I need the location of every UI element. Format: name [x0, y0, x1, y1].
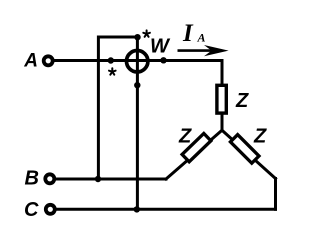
wire branch A down to load — [221, 61, 224, 86]
node junction on line B — [95, 176, 101, 182]
polarity asterisk on line A — [109, 68, 116, 74]
svg-text:W: W — [150, 36, 171, 58]
wire wye left diagonal — [166, 130, 222, 179]
svg-text:I: I — [182, 20, 194, 47]
node voltage-coil lower terminal — [134, 82, 140, 88]
svg-text:Z: Z — [253, 126, 267, 148]
impedance Z right box — [230, 135, 259, 164]
svg-text:C: C — [24, 199, 39, 221]
node voltage-coil * terminal top — [134, 34, 140, 40]
wire from Z box to wye center — [221, 114, 224, 130]
svg-text:Z: Z — [178, 126, 192, 148]
wattmeter W1 circle — [127, 51, 148, 72]
svg-text:A: A — [23, 51, 38, 72]
node current-coil terminal right of W — [160, 57, 166, 63]
wire phase A horizontal — [55, 59, 223, 62]
impedance Z top box — [217, 85, 226, 113]
polarity asterisk top — [143, 30, 150, 36]
wire phase B horizontal — [56, 178, 166, 181]
svg-text:A: A — [197, 31, 206, 45]
node current-coil * terminal on line A — [108, 57, 114, 63]
wire wye right diagonal — [222, 130, 276, 178]
svg-text:B: B — [25, 168, 39, 190]
wire phase C horizontal — [56, 208, 275, 211]
node junction on line C — [134, 206, 140, 212]
wire wattmeter vertical — [136, 37, 139, 209]
svg-text:Z: Z — [235, 90, 249, 112]
wire right side down — [274, 179, 277, 210]
terminal C — [46, 205, 55, 214]
wire voltage-coil top bracket — [98, 37, 137, 179]
impedance Z left box — [182, 133, 211, 161]
terminal A — [44, 56, 53, 65]
arrow current IA — [178, 49, 223, 52]
terminal B — [45, 174, 54, 183]
